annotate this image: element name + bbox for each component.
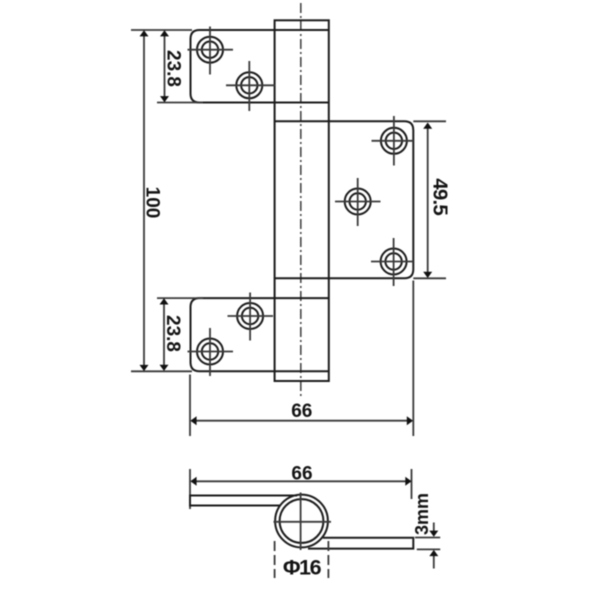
lower view: 3mm lower arrow bbox=[429, 550, 438, 569]
dimension 23.8 bottom label bbox=[162, 315, 183, 352]
lower view: phi16 extension dashed right bbox=[327, 541, 329, 578]
top-left leaf outline bbox=[191, 30, 330, 103]
screw hole R2 bbox=[335, 178, 381, 226]
screw hole T1 bbox=[188, 27, 234, 75]
extension line right leaf bottom to 49.5 bbox=[413, 277, 446, 279]
bottom-left leaf outline bbox=[191, 298, 330, 371]
extension line bottom (y=371.3) bbox=[131, 370, 192, 372]
lower view: dimension 66 line bbox=[190, 477, 411, 486]
lower view: barrel crosshair bbox=[274, 493, 332, 551]
svg-text:23.8: 23.8 bbox=[162, 315, 183, 352]
svg-text:Φ16: Φ16 bbox=[283, 556, 322, 580]
extension line 23.8 bottom top edge bbox=[157, 297, 203, 299]
lower view: barrel inner circle bbox=[280, 499, 324, 543]
lower view: left leaf bbox=[190, 496, 297, 506]
right leaf outline bbox=[275, 121, 413, 278]
dimension 23.8 top line bbox=[160, 30, 169, 102]
screw hole T2 bbox=[226, 61, 275, 111]
dimension 66 main label bbox=[291, 401, 312, 422]
extension line 23.8 top bottom edge bbox=[157, 102, 203, 104]
lower view: 66 dimension extensions bbox=[189, 469, 191, 509]
dimension 23.8 bottom line bbox=[160, 298, 169, 371]
lower view: 3mm label bbox=[412, 493, 432, 535]
svg-text:100: 100 bbox=[142, 187, 163, 219]
lower view: right leaf bbox=[308, 538, 413, 549]
centerline of hinge barrel bbox=[300, 3, 302, 397]
extension line top (y=30) bbox=[131, 29, 192, 31]
svg-text:23.8: 23.8 bbox=[163, 50, 184, 87]
lower view: 3mm extension bottom bbox=[417, 548, 440, 550]
lower view: 3mm upper arrow bbox=[429, 523, 438, 537]
lower view: barrel outer circle bbox=[275, 495, 328, 548]
screw hole R3 bbox=[371, 238, 413, 286]
svg-text:3mm: 3mm bbox=[412, 493, 432, 535]
svg-text:66: 66 bbox=[291, 464, 312, 485]
dimension 100 label bbox=[142, 187, 163, 219]
dimension 66 main line bbox=[190, 416, 413, 425]
lower view: phi16 extension dashed left bbox=[274, 541, 276, 578]
dimension 23.8 top label bbox=[163, 50, 184, 87]
lower view: dimension 66 label bbox=[291, 464, 312, 485]
hinge barrel (knuckle) bbox=[275, 20, 329, 381]
extension 66 main left bbox=[189, 375, 191, 437]
extension line right leaf top to 49.5 bbox=[413, 120, 446, 122]
lower view: phi16 label bbox=[283, 556, 322, 580]
dimension 49.5 line bbox=[423, 123, 432, 279]
svg-text:66: 66 bbox=[291, 401, 312, 422]
dimension 49.5 label bbox=[429, 178, 452, 215]
svg-text:49.5: 49.5 bbox=[429, 178, 452, 215]
lower view: 3mm extension top bbox=[415, 537, 440, 539]
screw hole R1 bbox=[372, 116, 414, 166]
screw hole B2 bbox=[188, 328, 234, 376]
extension 66 main right bbox=[412, 281, 414, 437]
screw hole B1 bbox=[228, 293, 274, 341]
dimension 100 line bbox=[140, 30, 149, 371]
